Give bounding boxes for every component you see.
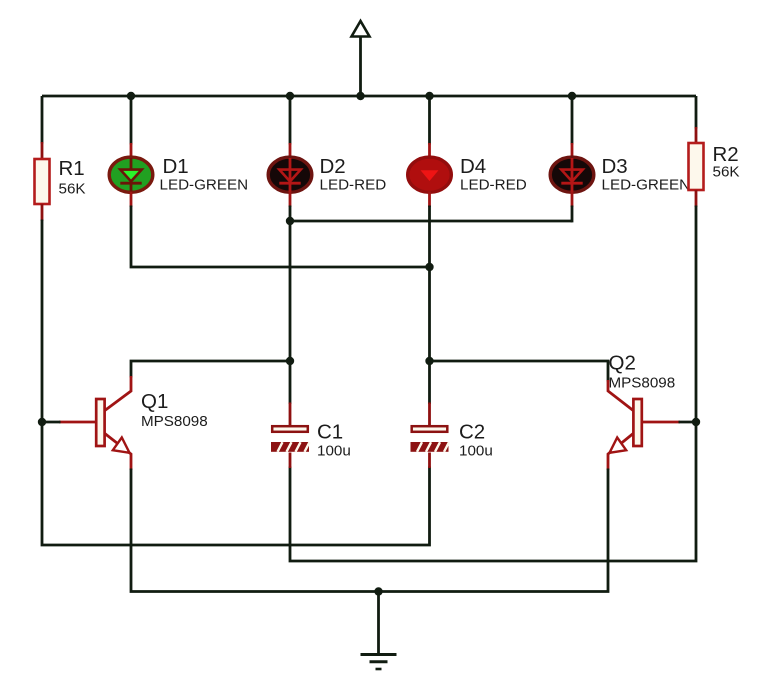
capacitor C1 pin bottom [289, 453, 292, 469]
svg-text:Q2: Q2 [609, 352, 636, 375]
ground [361, 592, 397, 670]
svg-text:LED-RED: LED-RED [320, 177, 387, 194]
transistor Q2 base pin [642, 421, 680, 424]
svg-text:100u: 100u [459, 443, 493, 460]
wire Q1 collector link (C1 node to Q1) [131, 361, 290, 378]
LED D4 pin top [428, 143, 431, 158]
LED D3 pin bottom [571, 192, 574, 208]
wire Q2 collector link (C2 node to Q2) [430, 361, 609, 382]
node top rail / power [356, 92, 364, 100]
node top rail / D4 [425, 92, 433, 100]
node Q1 collector / C1 junction [286, 357, 294, 365]
svg-text:D4: D4 [460, 155, 486, 178]
svg-text:LED-GREEN: LED-GREEN [160, 177, 249, 194]
wire D4 bottom down to C2 [428, 206, 431, 405]
svg-text:D3: D3 [602, 155, 628, 178]
node top rail / D3 [568, 92, 576, 100]
LED D1 pin bottom [130, 192, 133, 208]
wire Q1 base to left rail [42, 421, 61, 424]
capacitor C1 pin top [289, 403, 292, 426]
wire right rail upper (top rail to R2) [695, 96, 698, 129]
resistor R1 pin top [41, 142, 44, 159]
svg-text:100u: 100u [317, 443, 351, 460]
svg-text:C2: C2 [459, 421, 485, 444]
wire D1 top [130, 96, 133, 145]
resistor R1 [35, 159, 50, 204]
svg-text:LED-GREEN: LED-GREEN [602, 177, 691, 194]
LED D2 pin bottom [289, 192, 292, 208]
wire D2 top [289, 96, 292, 145]
svg-text:C1: C1 [317, 421, 343, 444]
node ground junction [374, 587, 382, 595]
resistor R2 [689, 143, 704, 190]
LED D4 pin bottom [428, 192, 431, 208]
wire left rail upper (top rail to R1) [41, 96, 44, 144]
wire emitter ground bus [131, 469, 608, 592]
LED D3 (green, off) [550, 157, 594, 192]
transistor Q2 [608, 399, 642, 470]
wire D1 bottom cross-link to D4/C2 node [131, 206, 430, 268]
svg-text:LED-RED: LED-RED [460, 177, 527, 194]
wire D3 top [571, 96, 574, 145]
capacitor C2 pin bottom [428, 453, 431, 469]
LED D4 (red, lit) [408, 157, 452, 192]
svg-text:MPS8098: MPS8098 [609, 375, 676, 392]
capacitor C1 [271, 426, 310, 452]
LED D1 (green, lit) [109, 157, 153, 192]
wire D3 bottom to D2-D3 link [571, 206, 574, 223]
transistor Q1 [96, 399, 131, 470]
node top rail / D2 [286, 92, 294, 100]
capacitor C2 [411, 426, 450, 452]
LED D1 pin top [130, 143, 133, 158]
wire top power rail [42, 95, 696, 98]
LED D2 (red, off) [268, 157, 312, 192]
node top rail / D1 [127, 92, 135, 100]
node Q1 base / left rail junction [38, 418, 46, 426]
transistor Q2 collector pin [608, 380, 633, 411]
LED D2 pin top [289, 143, 292, 158]
svg-text:MPS8098: MPS8098 [141, 413, 208, 430]
LED D3 pin top [571, 143, 574, 158]
transistor Q1 collector pin [105, 376, 131, 411]
resistor R2 pin bottom [695, 190, 698, 207]
svg-text:Q1: Q1 [141, 390, 168, 413]
node Q2 collector / C2 junction [425, 357, 433, 365]
wire right rail lower to C1 bottom (Q2 base rail) [290, 206, 696, 562]
svg-text:D1: D1 [163, 155, 189, 178]
wire Q2 base to right rail [679, 421, 697, 424]
wire D4 top [428, 96, 431, 145]
power symbol VCC arrow [352, 21, 370, 96]
node Q2 base / right rail junction [692, 418, 700, 426]
svg-text:D2: D2 [320, 155, 346, 178]
node D2-D3 link junction [286, 217, 294, 225]
capacitor C2 pin top [428, 403, 431, 426]
resistor R1 pin bottom [41, 204, 44, 221]
wire D2 bottom down to C1 [289, 206, 292, 405]
transistor Q1 base pin [59, 421, 96, 424]
wire D2-D3 link [290, 220, 572, 223]
node D1 link / D4 vertical junction [425, 263, 433, 271]
wire left rail lower to C2 bottom [42, 220, 430, 546]
svg-text:56K: 56K [59, 181, 86, 198]
svg-text:R1: R1 [59, 157, 85, 180]
resistor R2 pin top [695, 127, 698, 143]
svg-text:56K: 56K [713, 164, 740, 181]
